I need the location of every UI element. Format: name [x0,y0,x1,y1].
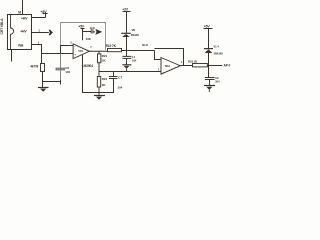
svg-text:M: M [18,11,21,15]
svg-text:13K: 13K [86,37,92,41]
module box U1 [61,23,106,81]
off-page arrow A1 [49,30,53,35]
svg-text:504: 504 [78,49,83,53]
svg-text:R21: R21 [102,54,108,58]
svg-text:104: 104 [132,59,137,63]
capacitor C9 104 [205,78,215,86]
svg-text:R1.8: R1.8 [142,43,148,47]
power +5V right [204,29,213,49]
svg-text:Vak: Vak [18,44,24,48]
svg-text:+HV: +HV [21,16,28,20]
power +5V [81,29,85,41]
wire output to R22 [180,65,192,67]
svg-text:1C8: 1C8 [90,26,95,30]
resistor R21 1K [98,54,101,63]
resistor R24 2K [97,72,100,93]
wire R21 bottom [98,63,100,72]
resistor R16 4k7W [41,64,45,72]
wire resistor to ground [42,72,44,88]
wire feedback loop [155,49,184,66]
capacitor C6 104 [56,54,66,85]
wire stub below connector [11,50,13,62]
svg-text:3N448: 3N448 [131,33,139,37]
wire node to opamp plus [42,53,74,55]
wire pin1 to +8V [32,17,46,19]
svg-text:+HV: +HV [20,30,27,34]
wire to R21 [98,51,100,54]
wire ground rail [99,71,161,73]
svg-text:1N4148: 1N4148 [213,52,223,56]
svg-text:104: 104 [65,70,70,74]
wire minus input [61,46,74,54]
wire pin2 [32,32,49,34]
svg-text:C7: C7 [118,76,122,80]
ground G2 [94,93,105,100]
svg-text:104: 104 [215,79,220,83]
capacitor 1C8 [83,29,96,33]
svg-text:R24: R24 [102,77,108,81]
resistor R19 [108,49,122,52]
connector J1 CRT socket box [8,15,32,50]
svg-text:+8V: +8V [40,10,47,14]
svg-text:104: 104 [118,85,123,89]
svg-text:-: - [163,59,164,63]
svg-text:AP 0: AP 0 [224,64,231,68]
diode VD3 1N4148 [121,33,131,50]
capacitor C8 [122,51,131,65]
op-amp U1A LM2904 [73,44,89,59]
wire R22 to output [207,65,222,67]
svg-text:CRT 9BLA: CRT 9BLA [0,18,4,35]
wire top pin M [22,0,24,15]
svg-text:R19 7K: R19 7K [106,44,117,48]
wire opamp V- down and bottom rail [83,55,114,93]
power +2V [123,12,131,33]
ground G1 [38,88,49,92]
wire pin3 [32,45,42,64]
wire R19 to node [122,50,155,52]
wire C6 bottom to ground line [43,81,61,83]
resistor R22 [193,64,208,67]
ground G3 [122,65,131,72]
power +8V [43,14,48,18]
svg-text:V1 4: V1 4 [213,45,219,49]
capacitor C7 [109,72,117,79]
svg-text:-: - [74,45,75,49]
svg-text:VD: VD [132,28,136,32]
diode VD4 1N4148 [204,49,213,66]
wire node down to C9 [208,66,210,78]
wire opamp output [89,50,107,52]
op-amp N1A [161,58,180,75]
connector inner contour with arc [11,15,14,50]
svg-text:LM2904: LM2904 [82,64,93,68]
ground G4 [204,86,215,92]
wire node to minus input [155,51,162,60]
svg-text:4k7W: 4k7W [30,64,38,68]
off-page arrow A2 [95,29,102,35]
